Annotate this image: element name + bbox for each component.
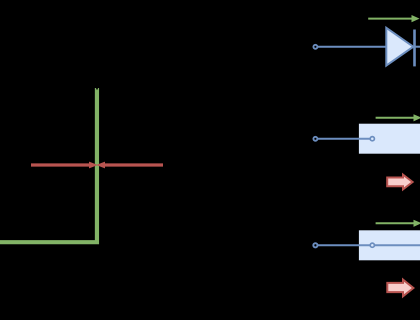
terminal node row 3 bbox=[313, 243, 317, 247]
wire row 3 bbox=[318, 244, 420, 246]
red arrowhead pointing left at node A bbox=[96, 162, 105, 169]
pin circle row 3 bbox=[370, 243, 374, 247]
diode D1 triangle bbox=[386, 28, 413, 66]
notch at curve top bbox=[96, 88, 98, 90]
wire row 1 bbox=[318, 46, 387, 48]
wire red dimension line right segment bbox=[105, 163, 164, 166]
green current arrow row 3 bbox=[376, 220, 420, 227]
component box U3 bbox=[359, 230, 420, 260]
red block arrow row 3 bbox=[387, 280, 413, 297]
terminal node row 1 bbox=[313, 45, 317, 49]
wire row 2 bbox=[318, 138, 372, 140]
diode D1 cathode bar bbox=[413, 30, 416, 67]
terminal node row 2 bbox=[313, 137, 317, 141]
wire green curve L (characteristic curve) bbox=[0, 88, 97, 242]
red block arrow row 2 bbox=[387, 175, 412, 190]
green current arrow row 2 bbox=[376, 114, 420, 121]
component box U2 bbox=[359, 124, 420, 154]
wire stub right of diode bbox=[415, 46, 420, 48]
wire red dimension line left segment bbox=[31, 163, 90, 166]
green current arrow row 1 bbox=[368, 15, 419, 22]
red arrowhead pointing right at node A bbox=[89, 162, 98, 169]
pin circle row 2 bbox=[370, 137, 374, 141]
